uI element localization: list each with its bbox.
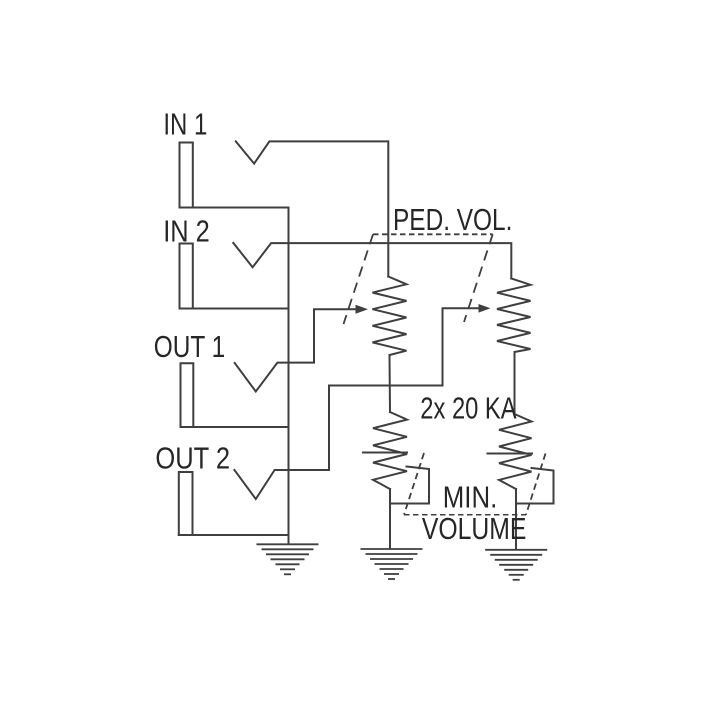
svg-text:OUT 1: OUT 1 <box>154 329 225 364</box>
svg-text:PED. VOL.: PED. VOL. <box>393 202 512 237</box>
svg-text:IN 1: IN 1 <box>163 107 207 142</box>
svg-text:2x 20 KA: 2x 20 KA <box>420 390 517 425</box>
svg-text:OUT 2: OUT 2 <box>155 440 230 475</box>
svg-text:VOLUME: VOLUME <box>422 511 527 546</box>
svg-text:MIN.: MIN. <box>443 480 498 515</box>
svg-text:IN 2: IN 2 <box>163 214 210 249</box>
